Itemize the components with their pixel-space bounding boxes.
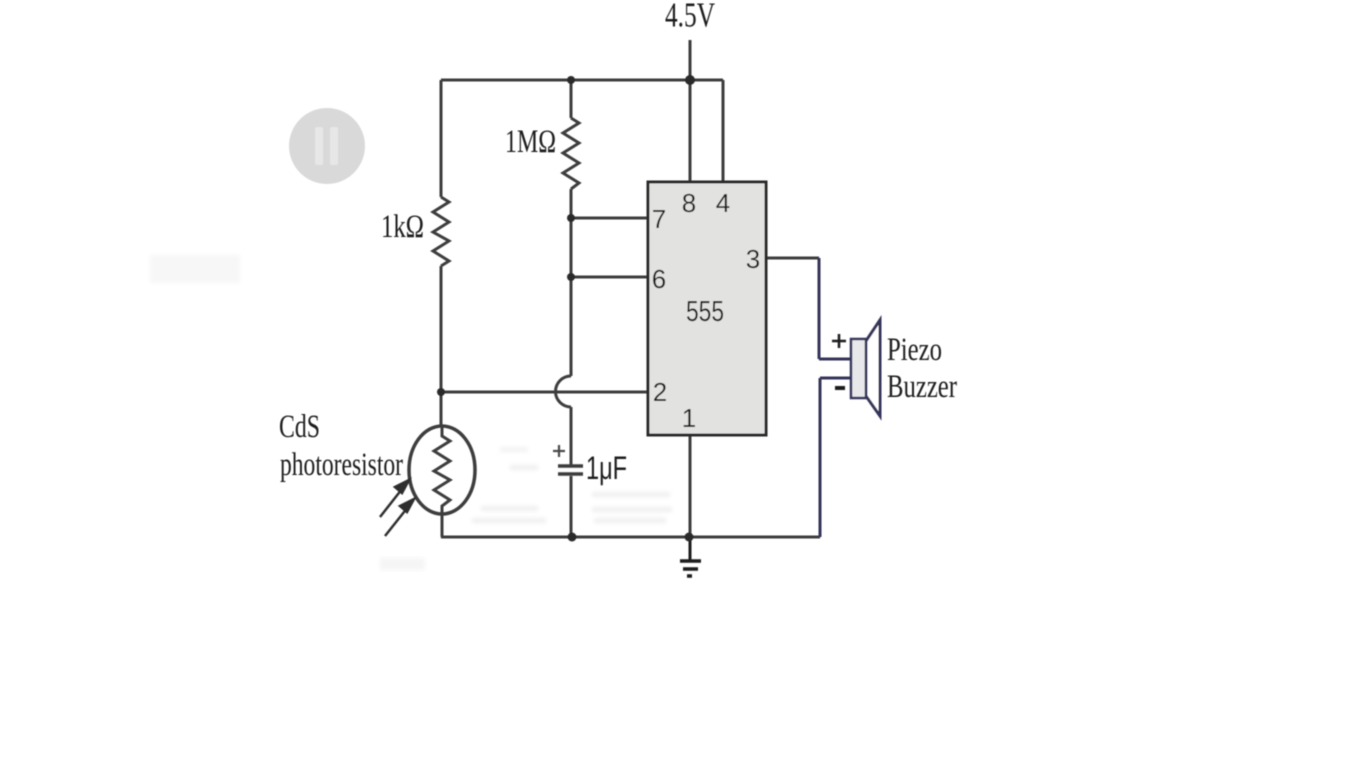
svg-text:8: 8 bbox=[682, 188, 696, 218]
wire 1M branch upper bbox=[570, 80, 573, 118]
capacitor C1 plates bbox=[558, 464, 583, 468]
faint compression ghost artifacts bbox=[150, 255, 672, 570]
svg-text:photoresistor: photoresistor bbox=[280, 447, 403, 483]
pin number labels bbox=[652, 188, 760, 433]
svg-text:Piezo: Piezo bbox=[887, 332, 942, 368]
wire pin 7 bbox=[571, 217, 648, 220]
svg-text:1kΩ: 1kΩ bbox=[381, 209, 424, 245]
wire bottom rail bbox=[441, 536, 820, 539]
buzzer minus sign bbox=[835, 386, 845, 390]
wire capacitor to bottom rail bbox=[570, 476, 573, 537]
wire pin 6 bbox=[571, 276, 648, 279]
svg-text:7: 7 bbox=[652, 204, 666, 234]
wire pin 3 output bbox=[766, 257, 819, 260]
buzzer wires (navy) bbox=[819, 258, 851, 537]
node junction dots bbox=[685, 75, 695, 85]
piezo buzzer symbol bbox=[851, 320, 880, 416]
resistor R1 1kΩ bbox=[433, 197, 449, 266]
resistor R2 1MΩ bbox=[563, 118, 579, 189]
wire photoresistor to bottom rail bbox=[441, 514, 444, 537]
wire left branch upper bbox=[440, 80, 443, 197]
buzzer plus sign bbox=[832, 334, 846, 348]
svg-text:555: 555 bbox=[686, 296, 724, 328]
capacitor plus sign bbox=[553, 445, 565, 457]
svg-text:CdS: CdS bbox=[279, 409, 320, 445]
wire to capacitor bbox=[570, 407, 573, 465]
wire hop over pin2 line bbox=[555, 376, 571, 407]
wire top rail bbox=[441, 79, 723, 82]
wire pin 4 bbox=[722, 80, 725, 182]
wire buzzer minus bbox=[820, 377, 851, 380]
wire left branch lower bbox=[440, 266, 443, 427]
svg-text:4: 4 bbox=[716, 188, 730, 218]
wire pin3 down to buzzer plus bbox=[818, 258, 821, 359]
photoresistor CdS zigzag bbox=[434, 427, 450, 514]
wire pin 1 bbox=[689, 435, 692, 537]
svg-text:1μF: 1μF bbox=[586, 450, 627, 486]
photoresistor CdS body bbox=[409, 426, 475, 514]
svg-text:2: 2 bbox=[653, 377, 667, 407]
svg-text:1MΩ: 1MΩ bbox=[505, 124, 556, 160]
svg-text:6: 6 bbox=[652, 264, 666, 294]
wire 1M branch middle bbox=[570, 189, 573, 376]
svg-text:1: 1 bbox=[682, 403, 696, 433]
svg-text:Buzzer: Buzzer bbox=[887, 369, 957, 405]
wire buzzer plus bbox=[819, 358, 851, 361]
wire 4.5V supply stub bbox=[689, 40, 692, 80]
wire buzzer minus down to bottom rail bbox=[819, 378, 822, 537]
wire pin 2 bbox=[441, 391, 648, 394]
photoresistor light arrows bbox=[380, 480, 414, 536]
pause button overlay bbox=[289, 108, 365, 184]
ground bbox=[680, 537, 701, 576]
svg-text:3: 3 bbox=[746, 244, 760, 274]
op-amp U1 555 timer box bbox=[648, 182, 766, 435]
svg-text:4.5V: 4.5V bbox=[665, 0, 715, 35]
wire pin 8 bbox=[689, 80, 692, 182]
